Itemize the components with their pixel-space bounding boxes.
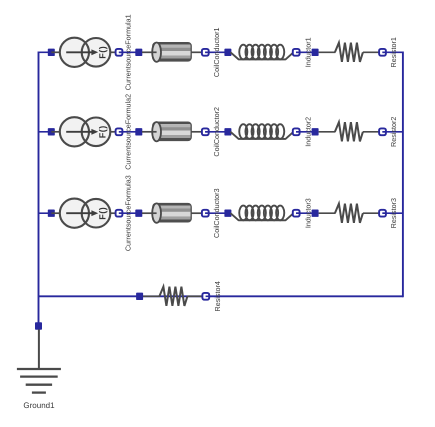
wire: resistor lead in xyxy=(319,51,336,53)
svg-text:Inductor2: Inductor2 xyxy=(304,117,313,147)
pin Inductor1.n xyxy=(293,49,300,56)
wire: source lead out xyxy=(110,212,116,214)
svg-text:Resistor4: Resistor4 xyxy=(213,281,222,311)
wire: CurrentsourceFormula3.n to CoilConductor3.p xyxy=(119,212,139,214)
wire: CoilConductor1.n to Inductor1.p xyxy=(205,51,228,53)
pin CurrentsourceFormula1.p xyxy=(48,49,55,56)
current source arrow xyxy=(66,49,98,55)
wire: left bus to CurrentsourceFormula2.p xyxy=(39,131,52,133)
pin CurrentsourceFormula2.n xyxy=(116,128,123,135)
pin CoilConductor3.p xyxy=(135,210,142,217)
current source arrow xyxy=(66,129,98,135)
pin Inductor2.p xyxy=(224,128,231,135)
svg-text:CoilConductor3: CoilConductor3 xyxy=(212,188,221,238)
wire: CoilConductor2.n to Inductor2.p xyxy=(205,131,228,133)
coil/conductor CoilConductor3 body xyxy=(142,203,191,222)
wire: conductor lead out xyxy=(191,212,203,214)
pin CoilConductor1.n xyxy=(202,49,209,56)
pin Inductor1.p xyxy=(224,49,231,56)
pin Resistor3.n xyxy=(379,210,386,217)
svg-text:Inductor3: Inductor3 xyxy=(304,198,313,228)
current source CurrentsourceFormula3 body xyxy=(60,199,110,228)
pin Inductor2.n xyxy=(293,128,300,135)
pin Resistor2.n xyxy=(379,128,386,135)
wire: resistor4 lead out xyxy=(187,295,203,297)
pin Resistor4.p xyxy=(136,293,143,300)
inductor Inductor1 coil xyxy=(231,45,294,60)
pin Inductor3.n xyxy=(293,210,300,217)
wire: Inductor2.n to Resistor2.p xyxy=(296,131,315,133)
coil/conductor CoilConductor2 body xyxy=(142,122,191,141)
inductor Inductor3 coil xyxy=(231,206,294,221)
pin CoilConductor2.n xyxy=(202,128,209,135)
wire: Inductor3.n to Resistor3.p xyxy=(296,212,315,214)
wire bottom bus horizontal xyxy=(39,295,403,297)
svg-text:F(): F() xyxy=(97,46,107,59)
resistor Resistor1 zigzag xyxy=(335,43,363,62)
wire: resistor lead out xyxy=(363,51,380,53)
wire: resistor lead out xyxy=(363,131,380,133)
wire: lead into source xyxy=(51,51,60,53)
wire: left bus to CurrentsourceFormula1.p xyxy=(39,51,52,53)
wire: source lead out xyxy=(110,51,116,53)
pin CurrentsourceFormula2.p xyxy=(48,128,55,135)
pin Resistor2.p xyxy=(312,128,319,135)
wire: lead into source xyxy=(51,212,60,214)
coil/conductor CoilConductor1 body xyxy=(142,43,191,62)
svg-text:CurrentsourceFormula3: CurrentsourceFormula3 xyxy=(123,175,132,251)
wire: resistor lead in xyxy=(319,212,336,214)
resistor Resistor4 zigzag xyxy=(159,287,187,306)
pin Resistor1.p xyxy=(312,49,319,56)
svg-text:CoilConductor1: CoilConductor1 xyxy=(212,28,221,78)
wire: CoilConductor3.n to Inductor3.p xyxy=(205,212,228,214)
resistor Resistor2 zigzag xyxy=(335,122,363,141)
current source CurrentsourceFormula1 body xyxy=(60,38,110,67)
svg-text:F(): F() xyxy=(97,207,107,220)
wire: resistor4 lead in xyxy=(143,295,160,297)
wire: lead into source xyxy=(51,131,60,133)
resistor Resistor3 zigzag xyxy=(335,204,363,223)
pin CurrentsourceFormula3.n xyxy=(116,210,123,217)
pin CurrentsourceFormula3.p xyxy=(48,210,55,217)
inductor Inductor2 coil xyxy=(231,124,294,139)
pin Ground1.p xyxy=(35,322,42,329)
svg-text:Resistor2: Resistor2 xyxy=(389,117,398,147)
svg-text:CurrentsourceFormula2: CurrentsourceFormula2 xyxy=(123,94,132,170)
pin CurrentsourceFormula1.n xyxy=(116,49,123,56)
svg-text:CurrentsourceFormula1: CurrentsourceFormula1 xyxy=(123,14,132,90)
wire right bus vertical xyxy=(402,52,404,298)
ground Ground1 symbol xyxy=(17,330,61,393)
wire: Resistor2.n to right bus xyxy=(383,131,403,133)
svg-text:F(): F() xyxy=(97,125,107,138)
wire left bus vertical xyxy=(38,52,40,327)
svg-text:Inductor1: Inductor1 xyxy=(304,37,313,67)
wire: source lead out xyxy=(110,131,116,133)
wire: resistor lead in xyxy=(319,131,336,133)
pin CoilConductor2.p xyxy=(135,128,142,135)
pin Resistor1.n xyxy=(379,49,386,56)
pin CoilConductor1.p xyxy=(135,49,142,56)
current source arrow xyxy=(66,210,98,216)
svg-text:Resistor1: Resistor1 xyxy=(389,37,398,67)
pin CoilConductor3.n xyxy=(202,210,209,217)
wire: CurrentsourceFormula2.n to CoilConductor2.p xyxy=(119,131,139,133)
pin Resistor4.n xyxy=(202,293,209,300)
wire: Resistor1.n to right bus xyxy=(383,51,403,53)
current source CurrentsourceFormula2 body xyxy=(60,117,110,146)
wire: CurrentsourceFormula1.n to CoilConductor1.p xyxy=(119,51,139,53)
svg-text:Ground1: Ground1 xyxy=(23,401,55,410)
pin Resistor3.p xyxy=(312,210,319,217)
wire: Inductor1.n to Resistor1.p xyxy=(296,51,315,53)
wire: Resistor3.n to right bus xyxy=(383,212,403,214)
svg-text:Resistor3: Resistor3 xyxy=(389,198,398,228)
pin Inductor3.p xyxy=(224,210,231,217)
wire: left bus to CurrentsourceFormula3.p xyxy=(39,212,52,214)
wire: conductor lead out xyxy=(191,51,203,53)
wire: conductor lead out xyxy=(191,131,203,133)
svg-text:CoilConductor2: CoilConductor2 xyxy=(212,107,221,157)
wire: resistor lead out xyxy=(363,212,380,214)
